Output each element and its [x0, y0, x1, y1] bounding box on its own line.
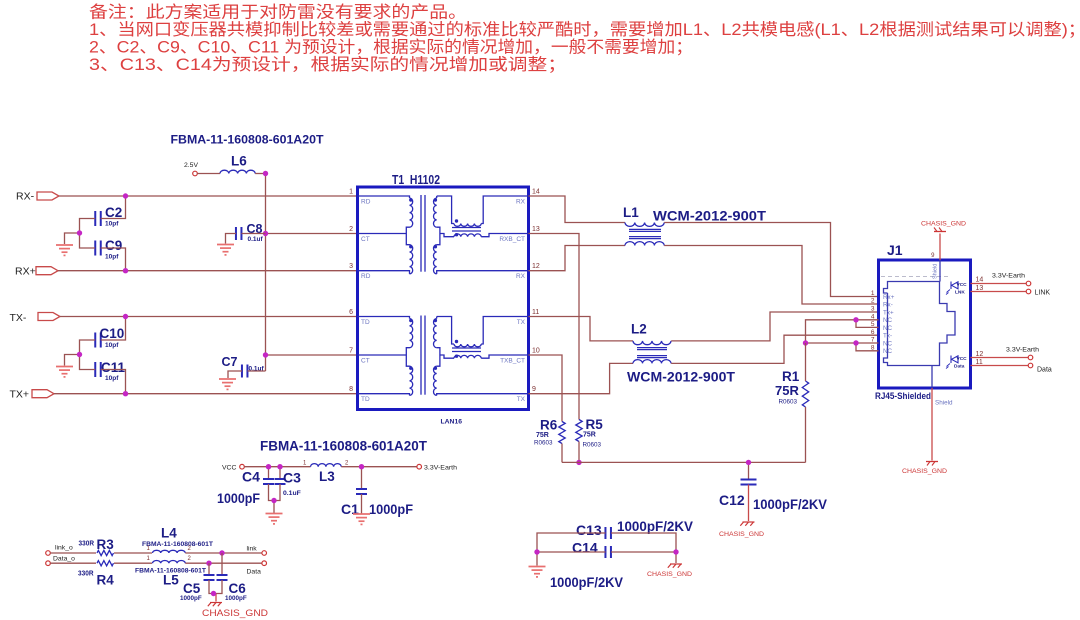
- svg-text:L3: L3: [319, 469, 335, 484]
- J1 LED data symbol: [946, 356, 967, 370]
- svg-text:3: 3: [349, 263, 353, 270]
- inductor L1 core: [629, 229, 661, 238]
- capacitor C6: [217, 553, 247, 602]
- wire rail to T1 pin 7: [266, 354, 358, 356]
- wire C14 right: [611, 551, 676, 553]
- junction link C6: [219, 550, 224, 555]
- wire C4/C3 to ground: [269, 484, 281, 513]
- node Data_o: [46, 555, 75, 565]
- inductor L5: [135, 556, 206, 587]
- svg-text:RD: RD: [361, 273, 371, 280]
- junction C4/C3 gnd: [271, 498, 276, 503]
- inductor L6: [220, 154, 255, 174]
- capacitor C2: [95, 205, 122, 228]
- svg-text:R3: R3: [97, 537, 115, 552]
- label WCM-2012-900T for L2: [627, 370, 736, 385]
- inductor L1 bottom winding: [625, 242, 664, 246]
- resistor R4: [78, 561, 114, 588]
- svg-text:Rx-: Rx-: [883, 301, 893, 308]
- wire C12 to chassis gnd: [748, 485, 750, 522]
- ground C4/C3: [266, 514, 283, 524]
- junction C14 right: [673, 549, 678, 554]
- svg-text:RX: RX: [516, 273, 526, 280]
- port TX+: [10, 389, 55, 401]
- svg-text:C13: C13: [576, 522, 602, 538]
- svg-text:TX-: TX-: [10, 312, 27, 324]
- svg-text:1000pF/2KV: 1000pF/2KV: [617, 518, 694, 534]
- junction C14 left: [534, 549, 539, 554]
- wire R6 to bottom rail: [561, 444, 563, 463]
- svg-text:11: 11: [976, 359, 983, 366]
- node 3.3V-Earth LINK: [992, 273, 1031, 286]
- wire T1 pin11 to L2: [529, 317, 634, 341]
- note line 2: [89, 20, 1080, 39]
- svg-text:NC: NC: [883, 348, 893, 355]
- wire rail to T1 pin 2: [266, 233, 358, 235]
- wire C2 right lead to RX-: [101, 196, 126, 219]
- note line 1: [89, 3, 467, 22]
- wire rail to C12: [748, 462, 750, 479]
- label L1: [623, 205, 639, 220]
- svg-text:CHASIS_GND: CHASIS_GND: [921, 221, 966, 228]
- wire C8 left lead: [226, 234, 237, 244]
- node LINK: [1026, 289, 1050, 296]
- svg-text:FBMA-11-160808-601T: FBMA-11-160808-601T: [142, 541, 213, 548]
- junction NC node R1: [803, 340, 808, 345]
- svg-text:9: 9: [532, 386, 536, 393]
- capacitor C1: [341, 467, 413, 517]
- inductor L3: [303, 461, 349, 485]
- ground C1: [353, 514, 370, 524]
- inductor L4: [142, 526, 213, 554]
- resistor R1: [775, 369, 809, 407]
- wire bottom termination rail: [562, 461, 806, 463]
- capacitor C12: [719, 480, 828, 513]
- wire T1 pin14 to L1: [529, 196, 626, 223]
- svg-text:NC: NC: [883, 317, 893, 324]
- ground C2/C9: [56, 245, 73, 255]
- wire 2.5V rail vertical: [265, 174, 267, 372]
- wire C10 right lead to TX-: [101, 317, 126, 341]
- svg-text:CHASIS_GND: CHASIS_GND: [202, 608, 268, 618]
- wire T1 pin10 to R6: [529, 355, 563, 422]
- svg-text:FBMA-11-160808-601T: FBMA-11-160808-601T: [135, 568, 206, 575]
- chassis ground J1 top: [934, 228, 946, 232]
- junction C5/C6: [211, 591, 216, 596]
- svg-text:10: 10: [532, 348, 540, 355]
- label L2: [631, 322, 647, 337]
- svg-text:75R: 75R: [536, 432, 549, 439]
- svg-text:L4: L4: [161, 526, 177, 541]
- capacitor C14: [572, 540, 611, 559]
- svg-text:1: 1: [303, 461, 307, 467]
- svg-text:T1 H1102: T1 H1102: [392, 172, 440, 187]
- svg-text:LNK: LNK: [955, 290, 965, 296]
- svg-text:TX+: TX+: [10, 389, 30, 401]
- wire RX+ to T1 pin 3: [58, 270, 358, 272]
- wire L1 bottom to J1 pin2: [664, 246, 878, 305]
- chassis ground C12: [719, 522, 764, 538]
- svg-text:link_o: link_o: [55, 545, 73, 552]
- wire 2.5V to L6: [197, 173, 220, 175]
- svg-text:LAN16: LAN16: [441, 419, 463, 426]
- svg-text:12: 12: [976, 351, 984, 358]
- svg-text:L1: L1: [623, 205, 639, 220]
- wire C7 right lead: [247, 370, 265, 372]
- svg-text:C9: C9: [105, 238, 122, 253]
- svg-text:RX+: RX+: [15, 265, 36, 277]
- wire R1 to bottom rail: [805, 407, 807, 462]
- node link: [247, 546, 267, 556]
- wire J1 shield to chassis top: [931, 234, 940, 261]
- svg-text:C11: C11: [101, 360, 126, 375]
- wire NC pins 7/8 tie: [806, 343, 879, 351]
- svg-text:FBMA-11-160808-601A20T: FBMA-11-160808-601A20T: [260, 439, 428, 454]
- svg-text:3: 3: [871, 306, 875, 313]
- T1 right pin numbers: [532, 189, 540, 394]
- svg-text:RX: RX: [516, 199, 526, 206]
- label WCM-2012-900T for L1: [653, 209, 767, 224]
- svg-text:RXB_CT: RXB_CT: [499, 236, 525, 243]
- svg-text:TXB_CT: TXB_CT: [500, 358, 525, 365]
- svg-text:J1: J1: [887, 242, 903, 258]
- capacitor C5: [180, 563, 215, 602]
- capacitor C9: [95, 238, 122, 261]
- junction Data C5: [206, 561, 211, 566]
- inductor L2 bottom winding: [633, 360, 671, 364]
- wire R3 to L4: [114, 552, 152, 554]
- wire NC pins 4/5 tie: [806, 320, 879, 343]
- wire TX+ to T1 pin 8: [54, 393, 358, 395]
- resistor R6: [534, 418, 565, 447]
- svg-text:13: 13: [976, 285, 984, 292]
- svg-text:WCM-2012-900T: WCM-2012-900T: [627, 370, 736, 385]
- svg-text:Shield: Shield: [935, 400, 953, 407]
- wire T1 pin9 to L2 bottom: [529, 363, 634, 393]
- junction rail pin7: [263, 352, 268, 357]
- svg-text:1000pF: 1000pF: [217, 490, 260, 506]
- ground C8: [217, 245, 234, 255]
- wire C9 left lead: [80, 233, 96, 248]
- svg-text:C6: C6: [229, 581, 247, 596]
- junction RX- C2: [123, 193, 128, 198]
- wire J1 pin11 to Data: [971, 359, 1029, 366]
- wire C14 left: [537, 551, 606, 553]
- wire T1 pin13 to R5: [529, 234, 580, 420]
- svg-text:2: 2: [188, 556, 192, 562]
- svg-text:C4: C4: [242, 469, 260, 485]
- svg-text:9: 9: [931, 253, 935, 259]
- J1 LED link symbol: [946, 282, 967, 296]
- svg-text:2: 2: [349, 226, 353, 233]
- wire L4 to link: [185, 552, 262, 554]
- wire VCC to L3: [244, 466, 310, 468]
- wire J1 pin14 to 3.3V-Earth: [971, 277, 1027, 284]
- wire C7 left lead: [228, 371, 242, 378]
- svg-text:6: 6: [349, 309, 353, 316]
- svg-text:1、当网口变压器共模抑制比较差或需要通过的标准比较严酷时，需: 1、当网口变压器共模抑制比较差或需要通过的标准比较严酷时，需要增加L1、L2共模…: [89, 20, 1080, 39]
- svg-text:14: 14: [532, 189, 540, 196]
- node 2.5V: [184, 162, 198, 176]
- svg-text:75R: 75R: [583, 432, 596, 439]
- svg-text:R5: R5: [586, 417, 604, 432]
- svg-text:WCM-2012-900T: WCM-2012-900T: [653, 209, 767, 224]
- svg-text:3.3V-Earth: 3.3V-Earth: [424, 465, 457, 472]
- J1 shield pin top: [933, 260, 941, 282]
- wire J1 pin12 to 3.3V-Earth: [971, 351, 1029, 358]
- svg-text:Rx+: Rx+: [883, 294, 895, 301]
- capacitor C13: [576, 518, 694, 539]
- svg-text:3、C13、C14为预设计，根据实际的情况增加或调整；: 3、C13、C14为预设计，根据实际的情况增加或调整；: [89, 55, 567, 74]
- junction TX- C10: [123, 314, 128, 319]
- junction rail pin2: [263, 231, 268, 236]
- svg-text:TD: TD: [361, 319, 370, 326]
- wire J1 pin13 to LINK: [971, 285, 1027, 292]
- node Data out: [1028, 363, 1052, 373]
- svg-text:3.3V-Earth: 3.3V-Earth: [1006, 347, 1039, 354]
- label FBMA-11-160808-601A20T for L3: [260, 439, 428, 454]
- capacitor C8: [236, 222, 264, 243]
- capacitor C10: [95, 326, 124, 349]
- svg-text:R0603: R0603: [779, 399, 798, 406]
- svg-text:CHASIS_GND: CHASIS_GND: [647, 571, 692, 578]
- wire L2 top to J1 pin3 Tx+: [671, 312, 878, 341]
- wire L2 bottom to J1 pin6 Tx-: [671, 335, 878, 363]
- svg-text:CHASIS_GND: CHASIS_GND: [719, 531, 764, 538]
- capacitor C11: [95, 360, 125, 382]
- junction C2/C9 gnd: [77, 230, 82, 235]
- J1 pin labels: [883, 294, 895, 355]
- svg-text:2: 2: [871, 298, 875, 305]
- svg-text:2.5V: 2.5V: [184, 162, 198, 169]
- capacitor C3: [275, 467, 302, 497]
- svg-text:C12: C12: [719, 492, 745, 508]
- wire J1 shield bottom to chassis: [931, 388, 933, 461]
- label FBMA-11-160808-601A20T for L6: [171, 133, 325, 147]
- svg-text:R4: R4: [97, 573, 115, 588]
- ground C10/C11: [56, 367, 73, 377]
- port RX+: [15, 265, 58, 277]
- junction C4: [266, 464, 271, 469]
- svg-text:1: 1: [871, 290, 875, 297]
- svg-text:Tx+: Tx+: [883, 309, 894, 316]
- chassis ground C5/C6: [202, 603, 268, 619]
- svg-text:C10: C10: [100, 326, 125, 341]
- label CHASIS_GND J1 bottom: [902, 468, 947, 475]
- svg-text:R0603: R0603: [534, 440, 553, 447]
- inductor L1 top winding: [625, 223, 664, 227]
- svg-text:备注：此方案适用于对防雷没有要求的产品。: 备注：此方案适用于对防雷没有要求的产品。: [89, 3, 467, 22]
- wire L3 to 3.3V-Earth: [341, 466, 417, 468]
- node Data: [247, 561, 267, 576]
- junction TX+ C11: [123, 391, 128, 396]
- svg-text:C5: C5: [183, 581, 201, 596]
- svg-text:CHASIS_GND: CHASIS_GND: [902, 468, 947, 475]
- svg-text:14: 14: [976, 277, 984, 284]
- resistor R5: [576, 417, 603, 449]
- svg-text:0.1uF: 0.1uF: [283, 490, 301, 497]
- wire TX- to T1 pin 6: [60, 316, 358, 318]
- J1 pin numbers 1-8: [871, 290, 875, 351]
- node 3.3V-Earth Data: [1006, 347, 1039, 360]
- J1 shield pin bottom: [932, 366, 953, 407]
- label RJ45-Shielded: [875, 391, 931, 402]
- svg-text:CT: CT: [361, 358, 370, 365]
- svg-text:TD: TD: [361, 396, 370, 403]
- node VCC: [222, 464, 244, 471]
- wire T1 pin12 to L1 bottom: [529, 246, 626, 271]
- transformer T1 box: [358, 187, 529, 410]
- svg-text:LINK: LINK: [1035, 290, 1051, 297]
- svg-text:1: 1: [147, 556, 151, 562]
- svg-text:75R: 75R: [775, 383, 799, 398]
- wire L5 to Data: [185, 562, 262, 564]
- ground C13/C14: [529, 567, 546, 577]
- label LAN16: [441, 419, 463, 426]
- port RX-: [16, 191, 59, 203]
- resistor R3: [79, 537, 115, 556]
- chassis ground J1 bottom: [926, 462, 938, 466]
- svg-text:VCC: VCC: [957, 282, 968, 288]
- T1 left pin labels: [361, 199, 371, 404]
- svg-text:13: 13: [532, 226, 540, 233]
- svg-text:NC: NC: [883, 325, 893, 332]
- svg-text:C7: C7: [222, 355, 238, 369]
- T1 right pin labels: [499, 199, 525, 404]
- node link_o: [46, 545, 73, 556]
- svg-text:RJ45-Shielded: RJ45-Shielded: [875, 391, 931, 402]
- ground C7: [219, 379, 236, 389]
- svg-text:NC: NC: [883, 340, 893, 347]
- junction R5 bottom rail: [576, 460, 581, 465]
- svg-text:L5: L5: [163, 573, 179, 588]
- svg-text:Data_o: Data_o: [53, 555, 75, 562]
- svg-text:L6: L6: [231, 154, 247, 169]
- junction C1: [359, 464, 364, 469]
- wire C8 right lead: [241, 233, 265, 235]
- svg-text:C3: C3: [283, 470, 301, 486]
- svg-text:8: 8: [349, 386, 353, 393]
- wire NC node to R1: [805, 343, 807, 381]
- svg-text:Data: Data: [1037, 367, 1052, 374]
- wire R4 to L5: [114, 562, 152, 564]
- transformer T1 RX winding section: [358, 195, 529, 274]
- wire C11 left lead: [80, 355, 96, 370]
- chassis ground C13/C14: [647, 564, 692, 578]
- svg-text:L2: L2: [631, 322, 647, 337]
- junction RX+ C9: [123, 268, 128, 273]
- note line 4: [89, 55, 567, 74]
- svg-text:1000pF: 1000pF: [225, 595, 247, 602]
- svg-text:C2: C2: [105, 205, 122, 220]
- svg-text:6: 6: [871, 329, 875, 336]
- svg-text:Data: Data: [247, 569, 262, 576]
- svg-text:VCC: VCC: [222, 464, 236, 471]
- svg-text:TX: TX: [517, 396, 526, 403]
- wire C2 left lead: [80, 219, 96, 234]
- capacitor C4: [217, 467, 274, 506]
- label CHASIS_GND J1 top: [921, 221, 966, 228]
- wire to ground C10/C11: [65, 355, 80, 366]
- note line 3: [89, 38, 693, 57]
- svg-text:1000pF/2KV: 1000pF/2KV: [753, 496, 828, 512]
- svg-text:1: 1: [349, 189, 353, 196]
- svg-text:330R: 330R: [78, 569, 94, 578]
- J1 jack outline: [884, 282, 956, 366]
- svg-text:11: 11: [532, 309, 539, 316]
- wire C13 left: [537, 533, 606, 566]
- junction C3: [277, 464, 282, 469]
- wire C13 right: [611, 533, 676, 563]
- T1 left pin numbers: [349, 189, 353, 394]
- svg-text:Data: Data: [954, 364, 965, 370]
- wire RX- to T1 pin 1: [59, 195, 358, 197]
- wire R5 to bottom rail: [578, 442, 580, 463]
- wire to ground C2/C9: [65, 233, 80, 244]
- junction L6 corner: [263, 171, 268, 176]
- svg-text:3.3V-Earth: 3.3V-Earth: [992, 273, 1025, 280]
- capacitor C7: [222, 355, 265, 378]
- connector J1 box: [879, 260, 971, 388]
- svg-text:link: link: [247, 546, 258, 553]
- wire Data_o to R4: [50, 562, 96, 564]
- label T1 H1102: [392, 172, 440, 187]
- svg-text:VCC: VCC: [957, 356, 968, 362]
- wire C1 to ground: [361, 494, 363, 514]
- wire C9 right lead to RX+: [101, 248, 126, 271]
- svg-text:330R: 330R: [79, 539, 95, 548]
- svg-text:10pf: 10pf: [105, 221, 119, 228]
- junction NC pin4: [853, 317, 858, 322]
- junction NC pin7 at 856: [853, 340, 858, 345]
- node 3.3V-Earth at L3: [417, 464, 457, 471]
- svg-text:R1: R1: [782, 369, 800, 384]
- label 1000pF/2KV for C14: [550, 574, 624, 590]
- junction C10/C11 gnd: [77, 352, 82, 357]
- svg-text:FBMA-11-160808-601A20T: FBMA-11-160808-601A20T: [171, 133, 325, 147]
- wire L6 to rail: [255, 173, 265, 175]
- label J1: [887, 242, 903, 258]
- transformer T1 TX winding section: [358, 316, 529, 396]
- svg-text:R0603: R0603: [583, 442, 602, 449]
- svg-text:Shield: Shield: [933, 264, 939, 279]
- svg-text:7: 7: [349, 348, 353, 355]
- svg-text:10pf: 10pf: [105, 254, 119, 261]
- inductor L2 top winding: [633, 341, 671, 345]
- svg-text:10pf: 10pf: [105, 375, 119, 382]
- J1 shield dashed line: [881, 276, 950, 278]
- inductor L2 core: [637, 348, 667, 358]
- svg-text:CT: CT: [361, 236, 370, 243]
- svg-text:1000pF: 1000pF: [180, 595, 202, 602]
- svg-text:RX-: RX-: [16, 191, 35, 203]
- wire C10 left lead: [80, 340, 96, 355]
- svg-text:12: 12: [532, 263, 540, 270]
- svg-text:10pf: 10pf: [105, 342, 119, 349]
- port TX-: [10, 312, 61, 324]
- svg-text:2: 2: [345, 461, 349, 467]
- svg-text:0.1uf: 0.1uf: [248, 236, 264, 243]
- svg-text:RD: RD: [361, 199, 371, 206]
- svg-text:Tx-: Tx-: [883, 333, 892, 340]
- svg-text:1000pF/2KV: 1000pF/2KV: [550, 574, 624, 590]
- svg-text:2、C2、C9、C10、C11 为预设计，根据实际的情况增加: 2、C2、C9、C10、C11 为预设计，根据实际的情况增加，一般不需要增加；: [89, 38, 693, 57]
- svg-text:R6: R6: [540, 418, 558, 433]
- svg-text:C14: C14: [572, 540, 598, 556]
- svg-text:TX: TX: [517, 319, 526, 326]
- wire L1 top to J1 pin1: [664, 223, 878, 297]
- wire link_o to R3: [50, 552, 96, 554]
